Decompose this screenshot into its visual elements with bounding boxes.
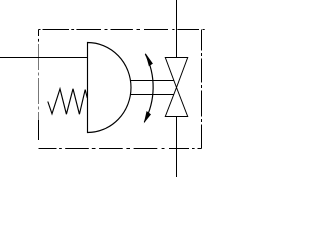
enclosure box left edge dark dash at top corner <box>38 30 40 37</box>
throttle valve lower triangle <box>165 88 187 117</box>
adjustment arrow bottom head <box>144 111 151 123</box>
enclosure box left edge dash above bottom corner <box>38 120 40 140</box>
throttle valve upper triangle <box>165 58 187 88</box>
wire: vertical flow line below throttle <box>176 117 178 178</box>
enclosure box left edge washed middle dashes <box>38 44 40 120</box>
enclosure dash-dot box right edge <box>201 30 203 149</box>
adjustment curved arrow arc <box>144 54 153 122</box>
enclosure dash-dot box bottom edge <box>39 148 202 150</box>
channel lower line from compensator to throttle <box>131 94 174 96</box>
adjustment arrow top head <box>145 53 153 67</box>
wire: vertical flow line above throttle <box>176 0 178 58</box>
pressure compensator body (D-shaped diaphragm actuator) <box>88 43 132 133</box>
enclosure box left edge dot <box>38 39 40 42</box>
channel upper line from compensator to throttle <box>131 80 174 82</box>
wire: left inlet port line <box>0 57 88 59</box>
spring <box>48 89 88 114</box>
enclosure dash-dot box top edge <box>39 29 205 31</box>
